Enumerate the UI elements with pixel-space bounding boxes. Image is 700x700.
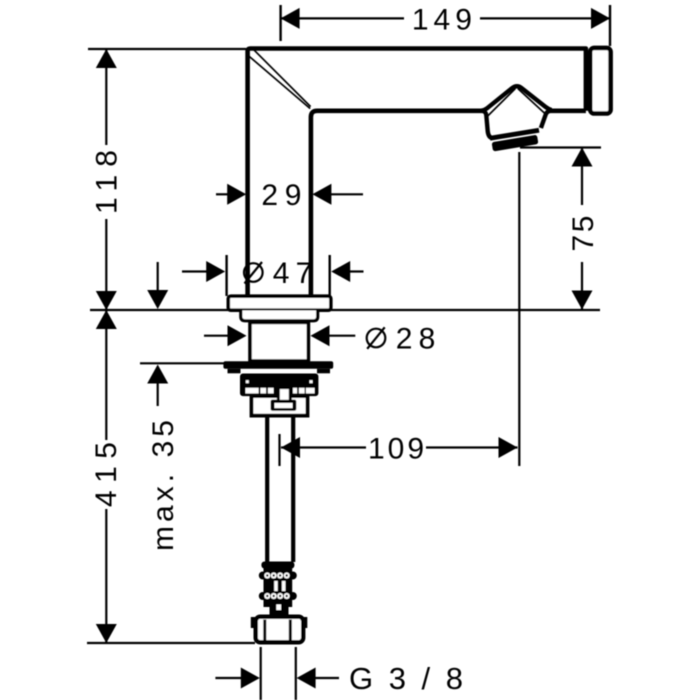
drain tab [278,388,290,402]
bracket insert [271,400,297,411]
dimension 29 [216,179,363,212]
hose collar [261,562,294,569]
lock plate side nubs [228,369,241,374]
lower bracket [252,396,308,416]
hose nut G3/8 [251,617,307,643]
braided hose [259,566,297,618]
dimension 118 [88,49,246,310]
spout end cap [590,48,610,114]
wire spout bottom right segment [550,109,586,114]
svg-text:415: 415 [90,442,123,507]
escutcheon sleeve [241,311,318,321]
dimension 149 [281,3,610,46]
base flange [228,296,330,310]
dimension dia28 [204,323,435,356]
dimension 109 [280,432,518,466]
dimension G3/8 [215,647,463,700]
wire spout bottom left segment and inner corner [311,111,482,296]
svg-text:118: 118 [91,150,124,214]
dimension dia47 [182,255,364,296]
supply tube [267,416,293,562]
aerator [490,130,539,151]
mounting nut [240,374,318,397]
dimension max. 35 [140,262,227,551]
spray head [481,86,552,138]
body corner chamfer lines [248,50,310,108]
svg-text:109: 109 [368,432,424,465]
countertop line [90,309,600,311]
dimension 415 [87,310,255,643]
svg-text:149: 149 [412,3,472,36]
faucet body outline [248,49,586,296]
lock plate [223,361,333,368]
mounting nut slots [246,380,315,393]
dimension 75 [519,148,601,467]
valve body [250,322,308,361]
